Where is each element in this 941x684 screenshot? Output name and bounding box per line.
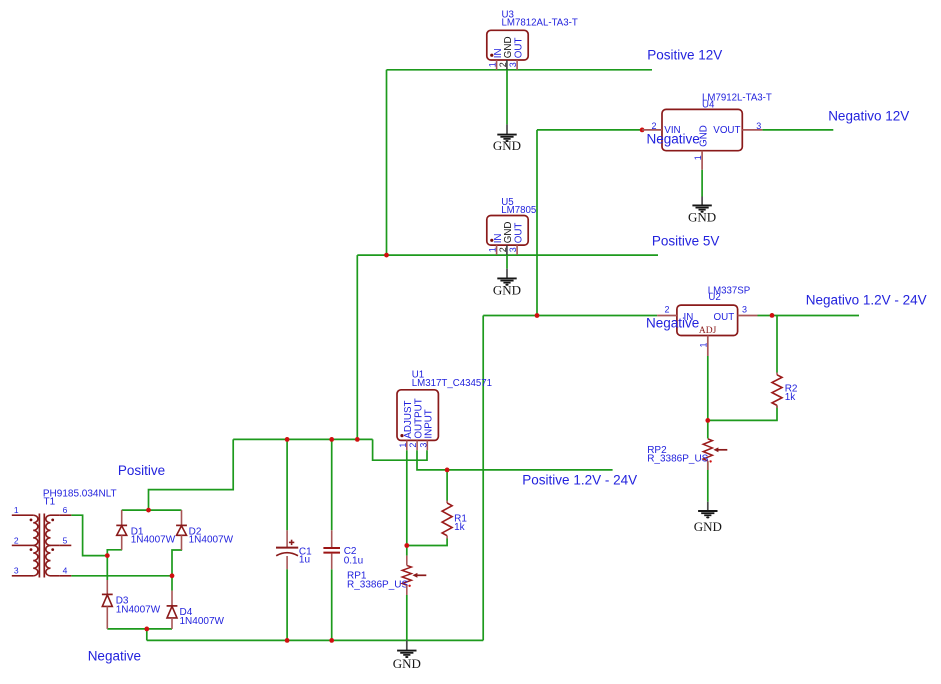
svg-text:1: 1: [693, 155, 703, 160]
svg-text:1: 1: [14, 505, 19, 515]
ground under RP2: [694, 502, 722, 535]
svg-text:1: 1: [488, 247, 498, 252]
ground under U4: [688, 197, 716, 225]
svg-text:2: 2: [408, 443, 418, 448]
op-amp U5 regulator LM7805: [487, 216, 528, 255]
wire U5 GND pin to ground symbol: [506, 255, 508, 269]
svg-text:3: 3: [508, 62, 518, 67]
op-amp U4 regulator LM7912L-TA3-T: [642, 109, 762, 169]
potentiometer RP2 leads: [707, 461, 709, 470]
svg-text:2: 2: [498, 62, 508, 67]
wire positive top rail over C1 C2: [233, 438, 372, 440]
svg-text:GND: GND: [694, 519, 722, 534]
junction C2 on top rail: [329, 437, 334, 442]
junction U4 feed on negative wire: [535, 313, 540, 318]
junction U3 feed on 5V rail: [384, 253, 389, 258]
wire R1 bottom to ADJ node: [407, 539, 447, 546]
svg-text:OUT: OUT: [714, 312, 735, 323]
ground center bottom: [393, 640, 421, 670]
diode D3 1N4007W: [102, 580, 161, 629]
transformer T1 PH9185.034NLT: [12, 514, 72, 578]
op-amp U1 regulator LM317T_C434571: [397, 390, 438, 450]
svg-text:OUT: OUT: [513, 38, 524, 59]
wire positive tap from bridge up to rail: [149, 439, 234, 510]
svg-text:T1: T1: [44, 496, 56, 507]
svg-text:Negative: Negative: [647, 131, 700, 146]
svg-text:U4: U4: [702, 100, 715, 111]
svg-text:1k: 1k: [785, 392, 797, 403]
svg-text:Negativo 1.2V - 24V: Negativo 1.2V - 24V: [806, 293, 927, 308]
wire U2 VOUT to Negativo 1.2V-24V net: [758, 315, 860, 317]
svg-text:1N4007W: 1N4007W: [189, 535, 234, 546]
svg-text:2: 2: [14, 536, 19, 546]
junction at U4 VIN pin: [640, 127, 645, 132]
junction bridge positive tap: [146, 508, 151, 513]
wire vertical negative feed up to U4: [536, 130, 538, 316]
svg-text:3: 3: [742, 305, 747, 315]
wire C2 top lead: [331, 439, 333, 530]
wire U2 ADJ pin down to RP2: [707, 356, 709, 420]
svg-text:5: 5: [63, 536, 68, 546]
resistor R1 1k: [442, 501, 467, 539]
diode D2 1N4007W: [176, 510, 234, 550]
wire C1 bottom lead: [286, 569, 288, 640]
svg-text:6: 6: [63, 505, 68, 515]
wire U1 OUTPUT to Positive 1.2V-24V net: [417, 450, 613, 470]
svg-text:1N4007W: 1N4007W: [131, 535, 176, 546]
ground under U5: [493, 269, 521, 298]
wire negative feed to U2 VIN: [483, 315, 657, 317]
svg-text:0.1u: 0.1u: [344, 556, 363, 567]
svg-text:Negative: Negative: [646, 316, 699, 331]
junction at U2 VOUT: [770, 313, 775, 318]
svg-text:Negativo 12V: Negativo 12V: [828, 108, 909, 123]
svg-text:4: 4: [63, 566, 68, 576]
junction C1 on bottom rail: [285, 638, 290, 643]
wire U3 GND pin to ground symbol: [506, 70, 508, 125]
wire U4 VOUT to Negativo 12V net: [762, 129, 833, 131]
capacitor C1 1u polarized: [276, 530, 312, 569]
junction bridge AC node 2: [170, 573, 175, 578]
wire negative bottom rail: [147, 639, 483, 641]
svg-text:INPUT: INPUT: [424, 409, 435, 438]
wire negative tap down to bottom rail: [146, 629, 148, 641]
ground under U3: [493, 124, 521, 153]
transformer pin numbers 1 2 3 6 5 4: [14, 505, 68, 575]
op-amp U2 regulator LM337SP: [657, 305, 757, 356]
svg-text:1: 1: [398, 443, 408, 448]
svg-text:Positive 12V: Positive 12V: [647, 47, 722, 62]
diode D4 1N4007W: [167, 591, 225, 629]
wire C1 top lead: [286, 439, 288, 530]
wire D2 anode jog to AC node 2: [172, 550, 182, 576]
svg-text:2: 2: [651, 121, 656, 131]
svg-text:1N4007W: 1N4007W: [180, 616, 225, 627]
svg-text:ADJ: ADJ: [699, 326, 717, 336]
wire positive-12V rail from U3 input corner to net label: [387, 69, 653, 71]
junction negative tap between D3 D4: [144, 627, 149, 632]
svg-text:VOUT: VOUT: [713, 125, 740, 136]
wire branch junction down to R1 top: [446, 470, 448, 501]
wire RP1 top stub: [406, 546, 408, 556]
wire C2 bottom lead: [331, 569, 333, 640]
svg-text:1k: 1k: [454, 522, 466, 533]
svg-text:3: 3: [14, 566, 19, 576]
svg-text:2: 2: [664, 305, 669, 315]
wire transformer pin6 to bridge AC node: [71, 515, 107, 555]
wire bridge positive top link D1-D2: [122, 509, 182, 511]
svg-text:Positive 5V: Positive 5V: [652, 234, 720, 249]
potentiometer RP1 leads: [406, 556, 408, 595]
junction U2 ADJ node at RP2: [705, 418, 710, 423]
svg-text:Negative: Negative: [88, 649, 141, 664]
capacitor C2 0.1u: [323, 530, 363, 569]
svg-text:R_3386P_US: R_3386P_US: [647, 453, 708, 464]
junction ADJ node at RP1: [404, 543, 409, 548]
wire D1 anode jog to AC node: [107, 550, 122, 556]
junction 357 riser on top rail: [355, 437, 360, 442]
wire positive-5V rail through U5 pins: [357, 254, 658, 256]
wire jog from top rail into U1 INPUT pin: [373, 439, 427, 460]
svg-text:GND: GND: [698, 125, 709, 147]
diode D1 1N4007W: [116, 510, 175, 550]
wire negative feed to U4 VIN: [537, 129, 642, 131]
svg-text:2: 2: [498, 247, 508, 252]
svg-text:3: 3: [418, 443, 428, 448]
potentiometer RP1 R_3386P_US: [347, 565, 426, 590]
svg-text:U2: U2: [708, 292, 720, 303]
wire negative rail riser on right: [482, 316, 484, 641]
junction bridge AC node 1: [105, 553, 110, 558]
resistor R2 1k: [772, 373, 798, 409]
op-amp U3 regulator LM7812AL-TA3-T: [487, 30, 528, 70]
svg-text:LM7812AL-TA3-T: LM7812AL-TA3-T: [502, 18, 578, 29]
wire vertical feed from top rail to U5 rail: [356, 255, 358, 439]
svg-text:3: 3: [756, 121, 761, 131]
wire RP1 bottom to ground rail: [406, 595, 408, 640]
junction C1 on top rail: [285, 437, 290, 442]
svg-text:LM7805: LM7805: [501, 205, 536, 216]
wire D3 D4 cathode bottom link: [107, 628, 172, 630]
svg-text:GND: GND: [493, 282, 521, 297]
potentiometer RP2 R_3386P_US: [647, 439, 727, 465]
svg-text:1: 1: [699, 342, 709, 347]
svg-text:1u: 1u: [299, 555, 310, 566]
wire U1 ADJUST pin down to RP1: [406, 450, 408, 545]
junction R1 tap on output wire: [445, 468, 450, 473]
wire RP2 bottom to ground symbol: [707, 462, 709, 502]
svg-text:1N4007W: 1N4007W: [116, 604, 161, 615]
wire AC node down to D3: [106, 556, 108, 580]
svg-text:GND: GND: [493, 138, 521, 153]
junction C2 on bottom rail: [329, 638, 334, 643]
svg-text:Positive 1.2V - 24V: Positive 1.2V - 24V: [522, 473, 637, 488]
svg-text:R_3386P_US: R_3386P_US: [347, 580, 408, 591]
svg-text:Positive: Positive: [118, 463, 165, 478]
wire R2 top lead from output node: [776, 316, 778, 373]
svg-text:LM317T_C434571: LM317T_C434571: [412, 378, 492, 389]
wire U4 GND pin to ground: [701, 170, 703, 197]
svg-text:GND: GND: [393, 656, 421, 671]
wire vertical feed to U3 from 5V rail junction: [386, 70, 388, 255]
wire transformer pin4 to second AC node: [71, 575, 172, 577]
svg-text:OUT: OUT: [513, 223, 524, 244]
svg-text:GND: GND: [688, 210, 716, 225]
wire RP2 top stub: [707, 420, 709, 438]
svg-text:3: 3: [508, 247, 518, 252]
wire R2 bottom to ADJ node of U2: [708, 405, 777, 420]
wire AC node 2 down to D4: [171, 576, 173, 591]
svg-text:1: 1: [488, 62, 498, 67]
